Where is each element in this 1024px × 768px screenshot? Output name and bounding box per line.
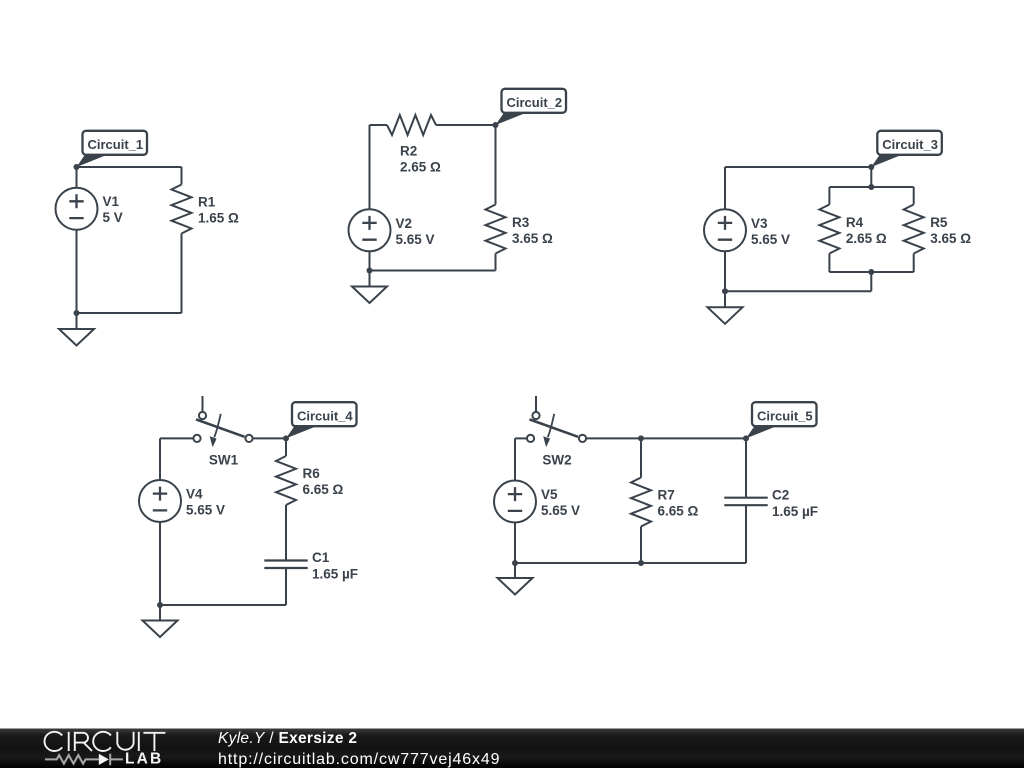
resistor R2: [387, 115, 436, 135]
capacitor C2: [724, 498, 767, 506]
voltage source V1: [56, 188, 98, 230]
svg-text:3.65 Ω: 3.65 Ω: [512, 231, 553, 246]
ground: [498, 578, 533, 595]
wire: [495, 254, 497, 271]
svg-text:2.65 Ω: 2.65 Ω: [400, 160, 441, 175]
wire: [76, 313, 78, 329]
resistor R7: [631, 478, 651, 527]
svg-text:Circuit_1: Circuit_1: [88, 137, 144, 152]
resistor R4: [819, 205, 839, 254]
node dot: [367, 268, 373, 274]
svg-text:2.65 Ω: 2.65 Ω: [846, 231, 887, 246]
svg-text:LAB: LAB: [125, 751, 163, 768]
svg-text:5 V: 5 V: [103, 210, 123, 225]
svg-text:R3: R3: [512, 215, 530, 230]
svg-text:5.65 V: 5.65 V: [396, 232, 435, 247]
ground: [59, 329, 94, 346]
wire: [76, 167, 78, 188]
wire: [181, 234, 183, 314]
wire: [828, 254, 830, 273]
wire: [285, 568, 287, 605]
node Circuit_5 flag: [746, 426, 777, 438]
voltage source V3: [704, 209, 746, 251]
resistor R1: [172, 185, 192, 234]
logo resistor-diode glyph: [45, 754, 123, 766]
wire: [76, 230, 78, 313]
wire: [745, 438, 747, 497]
wire: [436, 124, 496, 126]
wire: [370, 124, 388, 126]
svg-text:V1: V1: [103, 194, 120, 209]
wire: [369, 271, 371, 287]
wire: [159, 522, 161, 605]
node dot: [157, 602, 163, 608]
ground: [708, 307, 743, 324]
wire: [641, 437, 746, 439]
svg-text:5.65 V: 5.65 V: [186, 503, 225, 518]
node dot: [638, 560, 644, 566]
switch SW2: [535, 396, 537, 412]
svg-text:R1: R1: [198, 195, 216, 210]
node dot: [74, 310, 80, 316]
wire: [829, 186, 913, 188]
svg-text:SW1: SW1: [209, 453, 239, 468]
wire: [870, 167, 872, 187]
wire: [725, 290, 871, 292]
resistor R6: [276, 456, 296, 505]
wire: [724, 167, 726, 209]
node Circuit_4 flag: [286, 426, 317, 438]
svg-text:R6: R6: [303, 466, 321, 481]
svg-text:1.65 µF: 1.65 µF: [772, 504, 818, 519]
svg-text:http://circuitlab.com/cw777vej: http://circuitlab.com/cw777vej46x49: [218, 751, 500, 768]
svg-text:5.65 V: 5.65 V: [541, 503, 580, 518]
wire: [724, 291, 726, 307]
voltage source V5: [494, 481, 536, 523]
wire: [913, 187, 915, 205]
voltage source V4: [139, 480, 181, 522]
node dot: [868, 184, 874, 190]
wire: [495, 125, 497, 205]
wire: [745, 505, 747, 563]
node dot: [493, 122, 499, 128]
svg-text:Circuit_4: Circuit_4: [297, 408, 353, 423]
node dot: [283, 435, 289, 441]
wire: [77, 312, 182, 314]
svg-text:Kyle.Y / Exersize 2: Kyle.Y / Exersize 2: [218, 730, 357, 747]
svg-text:V4: V4: [186, 487, 203, 502]
wire: [725, 166, 871, 168]
wire: [913, 254, 915, 273]
wire: [369, 251, 371, 270]
wire: [870, 272, 872, 291]
svg-text:SW2: SW2: [542, 453, 571, 468]
wire: [640, 438, 642, 477]
svg-text:5.65 V: 5.65 V: [751, 232, 790, 247]
resistor R3: [486, 205, 506, 254]
node dot: [638, 435, 644, 441]
node dot: [868, 164, 874, 170]
wire: [829, 271, 913, 273]
wire: [285, 438, 287, 456]
svg-text:Circuit_5: Circuit_5: [757, 408, 813, 423]
wire: [77, 166, 182, 168]
wire: [828, 187, 830, 205]
svg-text:R2: R2: [400, 144, 417, 159]
switch SW1: [202, 396, 204, 412]
wire: [640, 527, 642, 564]
wire: [369, 125, 371, 209]
node Circuit_3 flag: [871, 155, 902, 167]
wire: [159, 605, 161, 621]
node dot: [722, 288, 728, 294]
svg-text:C1: C1: [312, 550, 330, 565]
ground: [352, 287, 387, 304]
svg-text:3.65 Ω: 3.65 Ω: [930, 231, 971, 246]
voltage source V2: [349, 209, 391, 251]
svg-text:1.65 Ω: 1.65 Ω: [198, 211, 239, 226]
wire: [514, 523, 516, 564]
svg-text:6.65 Ω: 6.65 Ω: [658, 504, 699, 519]
capacitor C1: [264, 561, 307, 569]
wire: [253, 437, 286, 439]
node Circuit_2 flag: [496, 113, 527, 125]
svg-text:Circuit_3: Circuit_3: [882, 137, 938, 152]
wire: [586, 437, 641, 439]
wire: [159, 438, 161, 480]
node dot: [868, 269, 874, 275]
svg-text:6.65 Ω: 6.65 Ω: [303, 482, 344, 497]
svg-text:R7: R7: [658, 488, 675, 503]
svg-text:C2: C2: [772, 487, 789, 502]
ground: [143, 621, 178, 638]
wire: [514, 563, 516, 578]
wire: [160, 604, 286, 606]
node Circuit_1 flag: [77, 155, 108, 167]
wire: [181, 167, 183, 185]
svg-text:1.65 µF: 1.65 µF: [312, 567, 358, 582]
svg-text:Circuit_2: Circuit_2: [507, 95, 563, 110]
svg-text:R4: R4: [846, 215, 864, 230]
svg-text:V2: V2: [396, 216, 413, 231]
svg-text:R5: R5: [930, 215, 948, 230]
wire: [514, 438, 516, 480]
node dot: [743, 435, 749, 441]
wire: [515, 437, 527, 439]
node dot: [512, 560, 518, 566]
wire: [160, 437, 193, 439]
wire: [515, 562, 746, 564]
wire: [370, 270, 496, 272]
wire: [724, 251, 726, 291]
resistor R5: [904, 205, 924, 254]
svg-text:V5: V5: [541, 487, 558, 502]
CircuitLab logo wordmark: [44, 732, 165, 751]
wire: [285, 505, 287, 561]
svg-text:V3: V3: [751, 216, 768, 231]
node dot: [74, 164, 80, 170]
